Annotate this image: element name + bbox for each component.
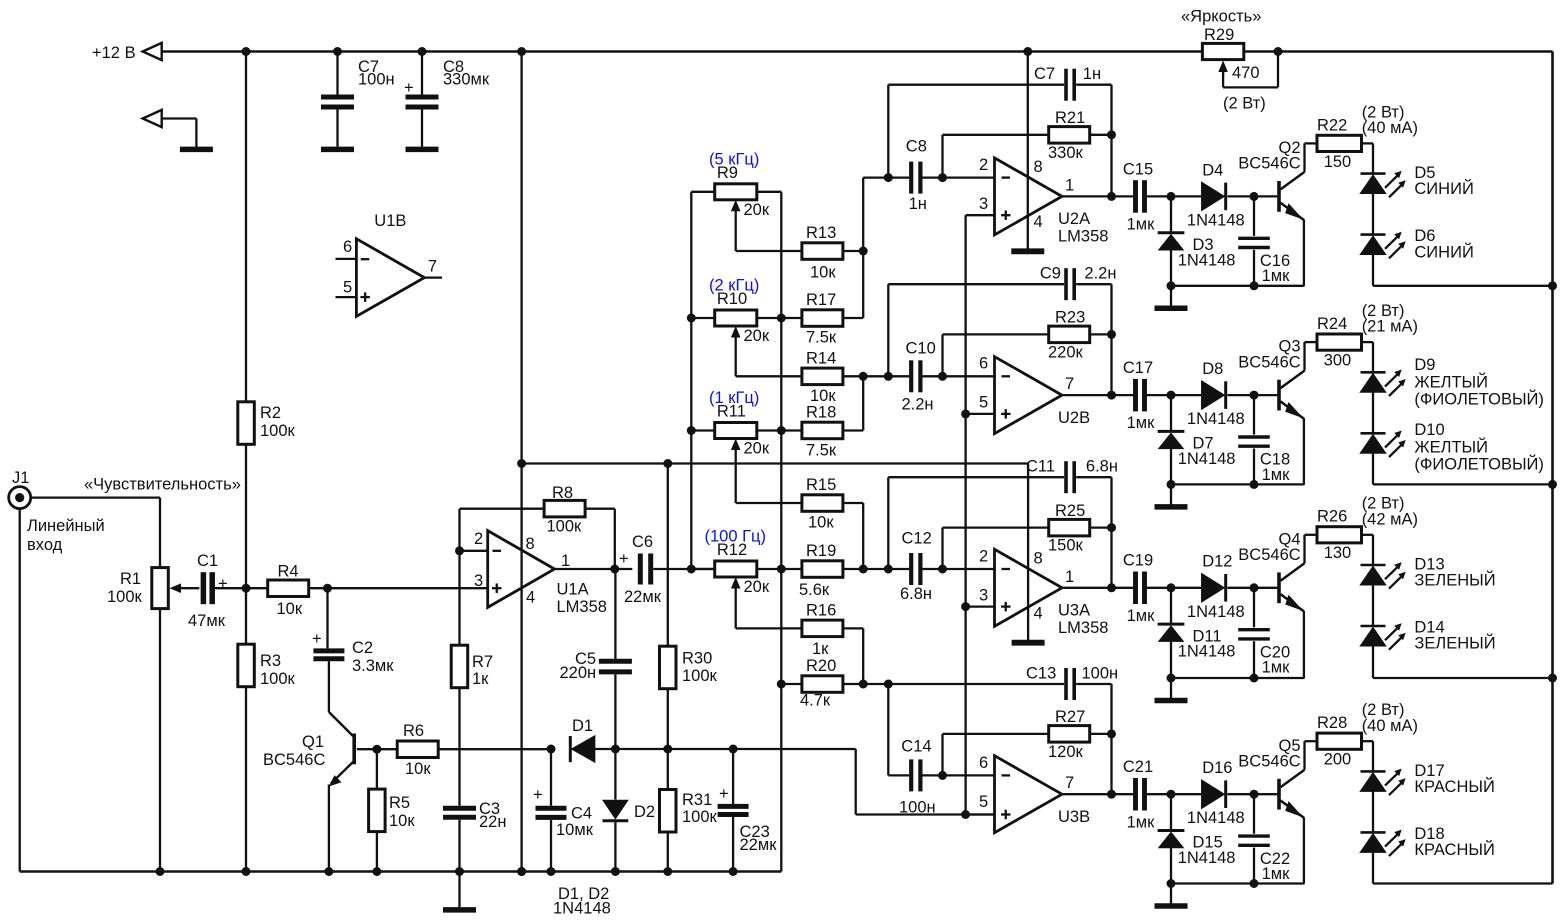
- svg-text:R7: R7: [472, 653, 493, 671]
- op-amp U1B: [356, 239, 424, 317]
- svg-text:Линейный: Линейный: [27, 517, 105, 535]
- wire R18 right: [843, 429, 863, 431]
- node input cap U3B: [938, 771, 947, 780]
- tie vertical ch2: [862, 376, 864, 430]
- svg-text:100к: 100к: [260, 670, 296, 688]
- svg-text:D8: D8: [1202, 360, 1223, 378]
- potentiometer R29 470: [1202, 43, 1243, 59]
- wire feedback R jog U2B: [941, 334, 943, 376]
- wire bias jog down: [855, 749, 857, 815]
- wire U1B output stub: [424, 276, 442, 278]
- node U1A output: [610, 565, 619, 574]
- capacitor C3 22n: [443, 806, 476, 811]
- svg-text:(2 Вт): (2 Вт): [1223, 95, 1266, 113]
- wire R14 right: [843, 375, 888, 377]
- resistor R2 100k: [238, 402, 255, 445]
- node D15 ground: [1167, 879, 1176, 888]
- node C21 out: [1167, 790, 1176, 799]
- tie vertical ch1: [862, 178, 864, 318]
- node bus-R11: [687, 426, 696, 435]
- capacitor C2 3.3uF: [326, 588, 328, 648]
- svg-text:(ФИОЛЕТОВЫЙ): (ФИОЛЕТОВЫЙ): [1414, 455, 1544, 474]
- diode D8 1N4148 (series): [1202, 381, 1224, 409]
- wire U2A inverting input: [943, 176, 995, 178]
- svg-text:R27: R27: [1055, 708, 1085, 726]
- wire ground rail: [20, 870, 782, 873]
- wire bias bus non-inverting inputs: [964, 215, 966, 814]
- node M U3B: [884, 680, 893, 689]
- svg-text:2.2н: 2.2н: [1084, 265, 1116, 283]
- resistor R5 10k: [376, 749, 378, 789]
- node rail-C8: [418, 47, 427, 56]
- wire R30 from power feed: [667, 464, 669, 647]
- wire D18 to bus: [1372, 852, 1374, 883]
- capacitor C8: [421, 52, 423, 95]
- node C6-R12-bus: [687, 565, 696, 574]
- ground U2A pin4: [1011, 248, 1044, 254]
- svg-text:7: 7: [1065, 375, 1074, 393]
- Q2 collector: [1281, 172, 1305, 190]
- op-amp U3A LM358: [995, 549, 1063, 626]
- wire Q3 emitter to ground row: [1303, 418, 1305, 484]
- svg-text:8: 8: [526, 535, 535, 553]
- svg-text:J1: J1: [12, 469, 29, 487]
- svg-text:5: 5: [979, 394, 988, 412]
- svg-text:(40 мА): (40 мА): [1362, 717, 1418, 735]
- svg-text:BC546C: BC546C: [1238, 155, 1300, 173]
- svg-text:C15: C15: [1123, 160, 1153, 178]
- svg-text:6: 6: [979, 355, 988, 373]
- wire R20 right: [843, 683, 888, 685]
- diode D16 1N4148 (series): [1202, 780, 1224, 808]
- node R23 output: [1107, 330, 1116, 339]
- wire U2A output: [1062, 195, 1133, 197]
- svg-text:C10: C10: [906, 340, 936, 358]
- svg-text:R19: R19: [806, 542, 836, 560]
- wire feedback vertical U2A: [1110, 85, 1112, 197]
- svg-text:R26: R26: [1317, 508, 1347, 526]
- node D11 ground: [1167, 674, 1176, 683]
- capacitor C14 100н (input): [888, 774, 909, 776]
- wire R15 right: [843, 502, 863, 504]
- svg-text:C7: C7: [1034, 65, 1055, 83]
- node D1-C4: [547, 745, 556, 754]
- capacitor C9 2.2н (feedback): [888, 283, 1064, 285]
- capacitor C23 22uF: [732, 749, 734, 804]
- svg-text:D4: D4: [1202, 161, 1223, 179]
- svg-text:R24: R24: [1317, 315, 1347, 333]
- diode D2 1N4148: [614, 749, 616, 800]
- LED D9 ЖЕЛТЫЙ: [1361, 371, 1386, 374]
- node bias-U3B: [961, 810, 970, 819]
- svg-text:10к: 10к: [810, 264, 836, 282]
- node D3 ground: [1167, 281, 1176, 290]
- wire channel ground row U3B: [1171, 882, 1304, 884]
- node D7 ground: [1167, 480, 1176, 489]
- LED D14 ЗЕЛЕНЫЙ: [1361, 625, 1386, 628]
- wire R19 right: [843, 568, 888, 570]
- svg-text:+: +: [719, 785, 729, 803]
- wire R1 bottom: [159, 609, 161, 872]
- svg-text:10к: 10к: [389, 812, 415, 830]
- node Q1 base-R5-R6: [372, 745, 381, 754]
- op-amp U1A: [488, 531, 555, 608]
- svg-text:R31: R31: [682, 791, 712, 809]
- LED D6 СИНИЙ: [1361, 233, 1386, 236]
- svg-text:1к: 1к: [472, 670, 489, 688]
- node base Q5: [1250, 790, 1259, 799]
- svg-text:1N4148: 1N4148: [1178, 450, 1236, 468]
- wire D1 anode: [595, 748, 668, 750]
- node gndbus-R20: [777, 680, 786, 689]
- resistor R3 100k: [238, 644, 255, 687]
- svg-text:C1: C1: [197, 552, 218, 570]
- capacitor C7 1н (feedback): [888, 84, 1064, 86]
- node C16 ground: [1250, 281, 1259, 290]
- svg-text:(42 мА): (42 мА): [1362, 510, 1418, 528]
- resistor R7 1k: [451, 645, 468, 688]
- svg-text:R3: R3: [260, 652, 281, 670]
- node R5 ground: [372, 867, 381, 876]
- resistor R25 150к: [1049, 519, 1090, 536]
- svg-text:U2A: U2A: [1058, 210, 1090, 228]
- svg-text:130: 130: [1324, 544, 1352, 562]
- R10 wiper wire: [735, 340, 737, 376]
- capacitor C16 1мк: [1253, 196, 1255, 236]
- wire D9-D10: [1372, 392, 1374, 433]
- diode D12 1N4148 (series): [1202, 574, 1224, 602]
- svg-text:R1: R1: [120, 570, 141, 588]
- svg-text:R23: R23: [1055, 309, 1085, 327]
- capacitor C19 1мк: [1133, 572, 1138, 605]
- wire R20 left: [781, 683, 802, 685]
- node R4-C2: [323, 584, 332, 593]
- LED D10 ЖЕЛТЫЙ: [1361, 432, 1386, 435]
- wire Q5 emitter to ground row: [1303, 817, 1305, 883]
- svg-text:300: 300: [1324, 352, 1352, 370]
- wire R30-R31: [667, 689, 669, 790]
- wire U1A power pin8 from rail: [520, 52, 522, 872]
- svg-text:1мк: 1мк: [1262, 267, 1291, 285]
- svg-text:R25: R25: [1055, 502, 1085, 520]
- node U2A output: [1107, 192, 1116, 201]
- svg-text:СИНИЙ: СИНИЙ: [1414, 179, 1473, 198]
- svg-text:R22: R22: [1317, 116, 1347, 134]
- wire R19 left: [781, 568, 802, 570]
- svg-text:R29: R29: [1204, 26, 1234, 44]
- svg-text:1мк: 1мк: [1262, 659, 1291, 677]
- node rail-R30-R31: [663, 745, 672, 754]
- svg-text:100к: 100к: [682, 808, 718, 826]
- svg-text:100н: 100н: [358, 71, 395, 89]
- wire U1B pin 5 stub: [336, 296, 357, 298]
- Q5 collector: [1281, 770, 1305, 788]
- svg-text:3: 3: [979, 195, 988, 213]
- svg-text:R8: R8: [552, 484, 573, 502]
- svg-text:(2 кГц): (2 кГц): [709, 277, 759, 295]
- svg-text:(40 мА): (40 мА): [1362, 119, 1418, 137]
- node base Q2: [1250, 192, 1259, 201]
- svg-text:1мк: 1мк: [1127, 607, 1156, 625]
- node R21 output: [1107, 130, 1116, 139]
- node gndbus-R11-R18: [777, 426, 786, 435]
- wire U3A power pin8: [1027, 464, 1029, 608]
- wire U1B pin 6 stub: [336, 258, 357, 260]
- svg-text:1N4148: 1N4148: [1178, 849, 1236, 867]
- node base Q4: [1250, 583, 1259, 592]
- power connector +12V arrow: [143, 43, 162, 60]
- svg-text:7: 7: [1065, 774, 1074, 792]
- wire R22 to LEDs: [1362, 142, 1374, 144]
- svg-text:3: 3: [979, 586, 988, 604]
- svg-text:1мк: 1мк: [1127, 414, 1156, 432]
- svg-text:LM358: LM358: [557, 598, 607, 616]
- svg-text:R30: R30: [682, 650, 712, 668]
- svg-text:10к: 10к: [405, 760, 431, 778]
- resistor R13 10к: [802, 243, 843, 259]
- capacitor C15 1мк: [1133, 180, 1138, 213]
- wire Q2 emitter to ground row: [1303, 220, 1305, 286]
- wire +12V rail: [162, 50, 1203, 53]
- svg-text:ЖЕЛТЫЙ: ЖЕЛТЫЙ: [1414, 373, 1488, 392]
- svg-text:C21: C21: [1123, 758, 1153, 776]
- svg-text:(5 кГц): (5 кГц): [709, 151, 759, 169]
- connector J1: [9, 487, 31, 509]
- wire U2A pin4 ground: [1027, 216, 1029, 249]
- node LED return U2B: [1548, 480, 1557, 489]
- svg-text:1: 1: [1065, 176, 1074, 194]
- wire middle node U3A: [887, 477, 889, 569]
- Q2 emitter: [1281, 203, 1304, 220]
- svg-text:R15: R15: [806, 476, 836, 494]
- svg-text:+: +: [404, 79, 414, 97]
- svg-text:«Яркость»: «Яркость»: [1181, 8, 1261, 26]
- wire feedback R jog U2A: [941, 135, 943, 178]
- node bus-R10: [687, 314, 696, 323]
- Q1 collector: [329, 712, 355, 738]
- wire feedback vertical U3B: [1110, 684, 1112, 794]
- svg-text:2.2н: 2.2н: [902, 396, 934, 414]
- node C17 out: [1167, 391, 1176, 400]
- wire U3A pin4 ground: [1027, 607, 1029, 640]
- svg-text:100н: 100н: [899, 799, 936, 817]
- tie vertical ch4: [862, 628, 864, 684]
- node feed-R30: [663, 459, 672, 468]
- svg-text:20к: 20к: [744, 201, 770, 219]
- wire middle node U3B: [887, 684, 889, 775]
- node rail-U2A power: [1023, 47, 1032, 56]
- node C22 ground: [1250, 879, 1259, 888]
- svg-text:R6: R6: [403, 722, 424, 740]
- node M U2A: [884, 173, 893, 182]
- resistor R16 1к: [802, 620, 843, 637]
- svg-text:ЖЕЛТЫЙ: ЖЕЛТЫЙ: [1414, 438, 1488, 457]
- svg-text:2: 2: [979, 547, 988, 565]
- R9 wiper wire: [735, 214, 737, 251]
- Q1 emitter: [331, 761, 355, 784]
- wire R2-R3: [245, 444, 247, 644]
- svg-text:C4: C4: [571, 805, 592, 823]
- node input cap U2A: [938, 173, 947, 182]
- svg-text:100к: 100к: [547, 518, 583, 536]
- svg-text:R21: R21: [1055, 109, 1085, 127]
- wire detector rail to bias jog: [668, 748, 856, 750]
- wire U2B output: [1062, 394, 1133, 396]
- wire feedback vertical U3A: [1110, 477, 1112, 588]
- wire R2 top: [245, 52, 247, 402]
- wire U3B non-inverting input: [966, 813, 995, 815]
- wire Q4 emitter to ground row: [1303, 611, 1305, 678]
- svg-text:1: 1: [561, 552, 570, 570]
- svg-text:«Чувствительность»: «Чувствительность»: [84, 476, 241, 494]
- node R25 output: [1107, 523, 1116, 532]
- capacitor C22 1мк: [1253, 794, 1255, 834]
- diode D7 1N4148 (clamp): [1170, 395, 1172, 431]
- svg-text:2: 2: [979, 156, 988, 174]
- svg-text:+12 В: +12 В: [92, 44, 136, 62]
- R1 wiper arrow: [180, 587, 199, 589]
- wire R21 right: [1090, 134, 1112, 136]
- svg-text:5: 5: [343, 278, 352, 296]
- resistor R6 10k: [397, 741, 438, 758]
- resistor R4 10k: [268, 580, 309, 597]
- resistor R21 330к: [1049, 127, 1090, 144]
- svg-text:вход: вход: [27, 536, 63, 554]
- node rail-R2: [242, 47, 251, 56]
- wire U3A non-inverting input: [966, 605, 995, 607]
- wire Q1 emitter to ground: [328, 785, 330, 872]
- potentiometer R1 100k: [152, 568, 169, 609]
- svg-text:20к: 20к: [744, 578, 770, 596]
- wire R8 right to output: [585, 508, 615, 510]
- svg-text:8: 8: [1034, 158, 1043, 176]
- wire D4 to base: [1228, 195, 1278, 197]
- svg-text:6: 6: [979, 754, 988, 772]
- wire R5-ground: [376, 832, 378, 872]
- svg-text:R18: R18: [806, 404, 836, 422]
- node R20-tie: [859, 680, 868, 689]
- node C18 ground: [1250, 480, 1259, 489]
- svg-text:10к: 10к: [277, 600, 303, 618]
- resistor R27 120к: [1049, 726, 1090, 743]
- resistor R31 100k: [660, 790, 677, 833]
- wire connector ground: [162, 117, 197, 119]
- svg-text:+: +: [619, 550, 629, 568]
- svg-text:U3A: U3A: [1058, 602, 1090, 620]
- wire R26 to LEDs: [1362, 534, 1374, 536]
- Q4 emitter: [1281, 594, 1304, 611]
- svg-text:D9: D9: [1414, 356, 1435, 374]
- svg-text:LM358: LM358: [1058, 619, 1108, 637]
- R11 wiper wire: [735, 453, 737, 504]
- svg-text:C17: C17: [1123, 359, 1153, 377]
- diode D11 1N4148 (clamp): [1170, 588, 1172, 624]
- node U1A pin4 ground: [517, 867, 526, 876]
- capacitor C5 220n: [614, 569, 616, 659]
- resistor R24 300: [1317, 334, 1362, 350]
- svg-text:150к: 150к: [1048, 537, 1084, 555]
- capacitor C10 2.2н (input): [888, 375, 909, 377]
- svg-text:6.8н: 6.8н: [1086, 458, 1118, 476]
- ground symbol channel U2A: [1170, 286, 1172, 306]
- wire R18 left: [781, 429, 802, 431]
- svg-text:1N4148: 1N4148: [553, 900, 611, 918]
- ground symbol channel U3A: [1170, 678, 1172, 698]
- svg-text:1мк: 1мк: [1127, 813, 1156, 831]
- svg-text:100к: 100к: [682, 667, 718, 685]
- svg-text:(ФИОЛЕТОВЫЙ): (ФИОЛЕТОВЫЙ): [1414, 389, 1544, 408]
- svg-text:10к: 10к: [810, 387, 836, 405]
- svg-text:220к: 220к: [1048, 343, 1084, 361]
- svg-text:3.3мк: 3.3мк: [352, 657, 394, 675]
- svg-text:C9: C9: [1040, 265, 1061, 283]
- svg-text:7.5к: 7.5к: [806, 329, 837, 347]
- wire C6 to filter bus: [653, 568, 714, 570]
- diode D3 1N4148 (clamp): [1170, 196, 1172, 232]
- svg-text:5: 5: [979, 793, 988, 811]
- wire feedback R jog U3B: [941, 734, 943, 776]
- svg-text:200: 200: [1324, 751, 1352, 769]
- svg-text:4: 4: [526, 589, 535, 607]
- node rail-C7: [333, 47, 342, 56]
- svg-text:6.8н: 6.8н: [900, 585, 932, 603]
- svg-text:10мк: 10мк: [556, 821, 594, 839]
- ground symbol bottom: [458, 872, 460, 908]
- LED D17 КРАСНЫЙ: [1361, 770, 1386, 773]
- potentiometer R9 20k: [691, 191, 714, 193]
- wire U2B inverting input: [943, 375, 995, 377]
- R29 wiper: [1222, 69, 1224, 75]
- power connector ground arrow: [143, 110, 162, 127]
- svg-text:U1A: U1A: [557, 581, 589, 599]
- wire D5-D6: [1372, 193, 1374, 234]
- node M U3A: [884, 565, 893, 574]
- svg-text:ЗЕЛЕНЫЙ: ЗЕЛЕНЫЙ: [1414, 634, 1495, 653]
- capacitor C21 1мк: [1133, 778, 1138, 811]
- resistor R22 150: [1317, 135, 1362, 151]
- svg-text:C14: C14: [901, 738, 931, 756]
- node gndbus-R12-R19: [777, 565, 786, 574]
- wire R16 right: [843, 627, 863, 629]
- wire R27 right: [1090, 733, 1112, 735]
- wire D12 to base: [1228, 587, 1278, 589]
- svg-text:22мк: 22мк: [740, 836, 778, 854]
- node base Q3: [1250, 391, 1259, 400]
- node input cap U2B: [938, 372, 947, 381]
- wire middle node U2B: [887, 284, 889, 376]
- svg-text:+: +: [533, 786, 543, 804]
- wire +12V rail right of R29: [1244, 50, 1553, 53]
- svg-text:220н: 220н: [560, 664, 597, 682]
- tie vertical ch3: [862, 503, 864, 569]
- op-amp U3B LM358: [995, 756, 1063, 833]
- op-amp U2B LM358: [995, 357, 1063, 434]
- Q3 emitter: [1281, 401, 1304, 418]
- svg-text:5.6к: 5.6к: [799, 581, 830, 599]
- Q4 collector: [1281, 563, 1305, 581]
- wire R3-ground: [245, 687, 247, 872]
- wire channel ground row U2B: [1171, 483, 1304, 485]
- ground symbol channel U2B: [1170, 484, 1172, 504]
- node R31 ground: [663, 867, 672, 876]
- LED D13 ЗЕЛЕНЫЙ: [1361, 564, 1386, 567]
- wire middle node U2A: [887, 85, 889, 178]
- wire D17-D18: [1372, 791, 1374, 832]
- node rail-C23: [729, 745, 738, 754]
- capacitor C7: [336, 52, 338, 95]
- node power feed U3A: [517, 459, 526, 468]
- wire R31 ground: [667, 832, 669, 872]
